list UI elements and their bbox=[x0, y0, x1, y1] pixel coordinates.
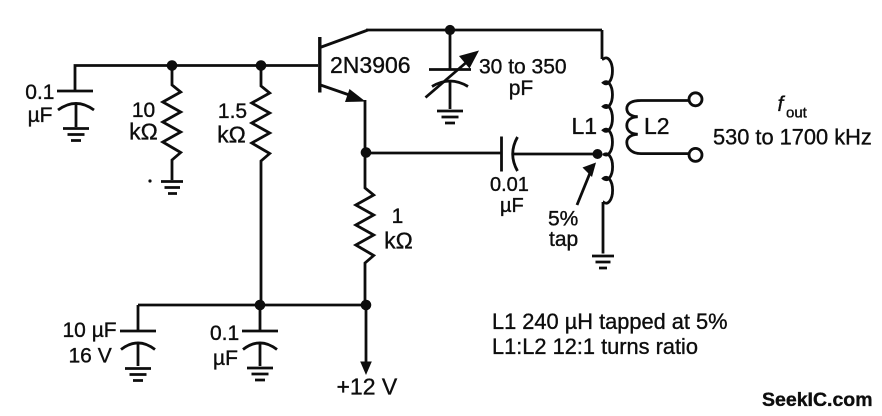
svg-text:16 V: 16 V bbox=[69, 344, 112, 367]
svg-text:L1: L1 bbox=[572, 113, 598, 139]
svg-text:µF: µF bbox=[500, 195, 524, 217]
svg-text:f: f bbox=[778, 93, 786, 116]
svg-text:1.5: 1.5 bbox=[218, 100, 247, 123]
svg-text:L1 240 µH tapped at 5%: L1 240 µH tapped at 5% bbox=[492, 309, 728, 334]
svg-text:0.01: 0.01 bbox=[490, 174, 529, 196]
svg-text:1: 1 bbox=[392, 205, 404, 228]
svg-text:kΩ: kΩ bbox=[129, 119, 158, 145]
svg-text:pF: pF bbox=[509, 77, 534, 100]
svg-text:0.1: 0.1 bbox=[25, 81, 54, 104]
svg-text:kΩ: kΩ bbox=[384, 228, 413, 254]
svg-text:30 to 350: 30 to 350 bbox=[479, 56, 567, 79]
svg-text:530 to 1700 kHz: 530 to 1700 kHz bbox=[713, 125, 872, 150]
svg-text:10 µF: 10 µF bbox=[63, 319, 117, 342]
svg-text:out: out bbox=[786, 105, 808, 122]
svg-text:L1:L2 12:1 turns ratio: L1:L2 12:1 turns ratio bbox=[492, 334, 698, 359]
svg-text:0.1: 0.1 bbox=[210, 322, 239, 345]
svg-text:+12 V: +12 V bbox=[337, 374, 398, 400]
svg-text:µF: µF bbox=[213, 347, 238, 370]
svg-text:2N3906: 2N3906 bbox=[330, 52, 411, 78]
svg-text:L2: L2 bbox=[644, 113, 670, 139]
svg-text:SeekIC.com: SeekIC.com bbox=[762, 389, 873, 411]
svg-text:µF: µF bbox=[28, 104, 53, 127]
svg-text:tap: tap bbox=[549, 228, 578, 251]
svg-text:kΩ: kΩ bbox=[217, 122, 246, 148]
